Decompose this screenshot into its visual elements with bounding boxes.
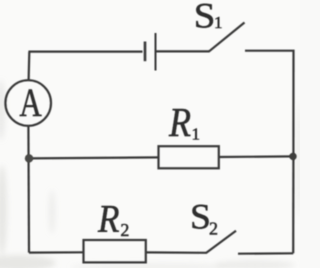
svg-text:A: A [19,80,42,125]
wire S2 contact to bottom-right corner [238,252,293,255]
svg-text:1: 1 [214,13,223,32]
svg-text:S: S [194,0,216,36]
battery B1 long plate [155,33,157,71]
wire right vertical upper [292,51,294,157]
wire right vertical lower [292,156,294,253]
wire R2 to switch S2 [146,251,207,254]
svg-text:2: 2 [120,220,129,240]
node right junction [289,153,296,160]
svg-text:R: R [168,101,191,146]
resistor R2 box [84,240,146,262]
svg-text:S: S [190,196,211,236]
wire bottom-left to R2 [29,251,84,254]
switch S1 blade [209,23,245,52]
svg-text:R: R [97,198,120,241]
battery B1 short plate [144,42,147,62]
svg-text:1: 1 [192,124,201,143]
ammeter A1 [5,80,51,126]
node left junction [25,154,33,162]
wire left vertical lower [27,126,30,253]
wire S1 contact to top-right corner [245,50,294,52]
resistor R1 box [159,146,219,168]
wire battery to switch S1 [157,50,210,52]
wire top-left horizontal [30,50,143,53]
svg-text:2: 2 [209,218,218,238]
wire left vertical upper [28,52,31,81]
wire middle branch left [29,157,159,158]
wire middle branch right [219,155,294,158]
switch S2 blade [206,231,236,253]
